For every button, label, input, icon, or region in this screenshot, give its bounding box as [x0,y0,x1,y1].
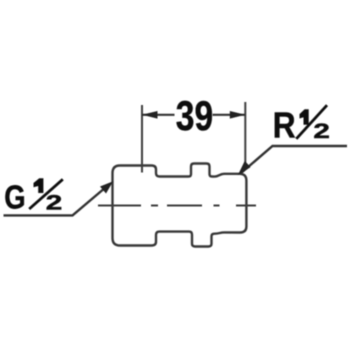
label G 1/2 [4,179,63,216]
svg-text:R: R [273,106,296,146]
dim arrow left [142,111,158,119]
fitting body outline [113,164,247,247]
leader line G [4,185,110,216]
leader line R [241,146,348,174]
dim arrow right [230,111,246,119]
svg-text:2: 2 [46,191,62,214]
center line (dash-dot) [98,205,256,207]
leader arrow R [238,161,251,176]
label R 1/2 [273,105,330,146]
dimension line 39 [142,114,245,116]
svg-text:39: 39 [176,94,213,140]
svg-text:G: G [4,179,25,216]
text 39 [176,94,213,140]
dimension extension lines [142,102,245,173]
svg-text:2: 2 [313,120,329,143]
leader arrow G [100,181,113,193]
